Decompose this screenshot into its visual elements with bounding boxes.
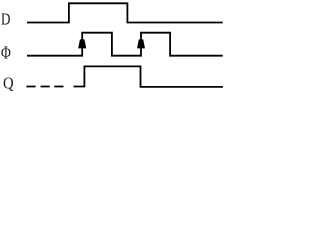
svg-text:D: D [1,10,10,29]
svg-text:Φ: Φ [1,43,11,63]
svg-text:Q: Q [3,74,14,93]
